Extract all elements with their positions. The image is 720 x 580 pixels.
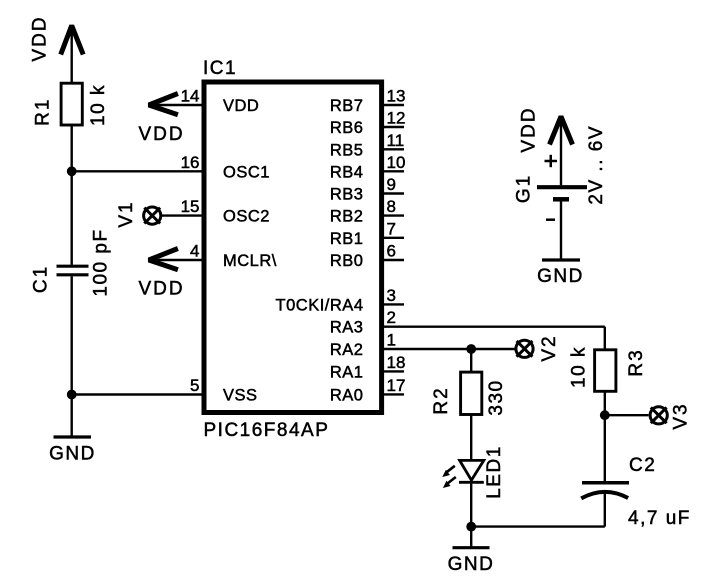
svg-text:2: 2 [387,308,396,327]
wire pin 8 [382,214,404,216]
svg-text:VDD: VDD [223,97,259,115]
battery G1 supply arrow VDD [550,117,573,145]
wire [70,276,72,394]
svg-text:MCLR\: MCLR\ [223,252,277,270]
svg-text:5: 5 [190,376,199,395]
wire pin 12 [382,126,404,128]
svg-text:RA3: RA3 [330,319,364,337]
wire to OSC1 [72,170,204,172]
wire [560,201,562,260]
svg-text:6: 6 [387,242,396,261]
svg-text:GND: GND [448,554,495,575]
svg-text:RA0: RA0 [330,386,364,404]
svg-text:GND: GND [49,444,96,465]
svg-text:17: 17 [387,376,406,395]
svg-text:OSC1: OSC1 [223,163,270,181]
ground GND (bottom) [453,546,490,549]
svg-text:4: 4 [190,242,199,261]
svg-text:VDD: VDD [519,106,540,152]
wire [70,171,72,264]
ground GND (left) [54,435,92,438]
wire [604,327,606,350]
wire pin 15 [161,214,204,216]
wire [70,125,72,171]
svg-text:RB7: RB7 [330,97,364,115]
supply arrow VDD (top left) [61,26,83,55]
test point V1 [144,207,161,224]
svg-text:VDD: VDD [30,15,51,61]
wire pin 3 [382,303,404,305]
IC1 right pin names [276,97,364,404]
wire [604,391,606,415]
svg-text:RB0: RB0 [330,252,364,270]
wire [604,493,606,527]
svg-text:OSC2: OSC2 [223,208,270,226]
svg-text:14: 14 [181,87,200,106]
svg-text:LED1: LED1 [484,445,505,499]
svg-text:9: 9 [387,175,396,194]
svg-text:4,7 uF: 4,7 uF [628,508,691,529]
LED1 light arrows [442,466,456,488]
wire [70,30,72,83]
svg-text:R1: R1 [33,98,54,126]
svg-text:18: 18 [387,353,406,372]
junction node [67,166,77,176]
svg-text:PIC16F84AP: PIC16F84AP [204,420,330,441]
wire [471,525,605,527]
svg-text:GND: GND [537,266,584,287]
supply arrow VDD at pin 14 [149,94,178,115]
supply arrow VDD at pin 4 [149,249,178,270]
svg-text:RB6: RB6 [330,119,364,137]
test point V2 [516,340,533,357]
svg-text:RB4: RB4 [330,163,364,181]
capacitor C1 [57,265,89,268]
svg-text:T0CKI/RA4: T0CKI/RA4 [276,296,364,314]
resistor R1 [61,83,82,125]
svg-text:3: 3 [387,286,396,305]
wire [470,482,472,526]
svg-text:R3: R3 [626,348,647,376]
junction node [466,522,476,532]
wire [560,121,562,185]
svg-text:7: 7 [387,219,396,238]
wire pin 14 [149,104,204,106]
svg-text:V1: V1 [116,200,137,227]
wire pin 6 [382,259,404,261]
IC1 left pin names [223,97,277,404]
LED LED1 [460,460,484,480]
svg-text:C1: C1 [31,265,52,293]
svg-text:RB3: RB3 [330,186,364,204]
svg-text:10: 10 [387,153,406,172]
svg-text:V2: V2 [539,334,560,361]
IC1 left pin numbers [181,87,200,396]
battery G1 positive plate [537,185,587,189]
battery G1 negative plate [553,197,569,202]
wire [470,349,472,372]
wire [470,415,472,461]
minus sign [546,218,555,221]
svg-text:100 pF: 100 pF [91,228,112,296]
wire pin 13 [382,104,404,106]
wire pin 1 net [382,348,515,350]
svg-text:10 k: 10 k [569,346,590,388]
wire pin 2 net [382,326,605,328]
svg-text:VDD: VDD [138,279,184,300]
capacitor C2 (polarized) [582,481,629,485]
IC IC1 PIC16F84AP body [204,82,382,413]
wire pin 11 [382,148,404,150]
resistor R3 [595,350,616,392]
svg-text:V3: V3 [671,402,692,429]
junction node [466,344,476,354]
svg-text:2V .. 6V: 2V .. 6V [586,125,607,205]
svg-text:11: 11 [387,131,405,150]
svg-text:G1: G1 [514,174,535,203]
svg-text:VDD: VDD [138,124,184,145]
svg-text:15: 15 [181,197,200,216]
svg-text:IC1: IC1 [203,58,237,79]
svg-text:R2: R2 [431,386,452,414]
junction node [600,410,610,420]
wire pin 18 [382,370,404,372]
wire pin 4 [149,259,204,261]
svg-text:8: 8 [387,197,396,216]
ground GND (G1) [542,258,580,261]
wire to VSS [72,393,204,395]
svg-text:VSS: VSS [223,386,258,404]
wire [70,395,72,438]
plus sign [545,160,558,163]
svg-text:RB1: RB1 [330,230,364,248]
svg-text:330: 330 [486,379,507,415]
svg-text:16: 16 [181,153,200,172]
wire pin 10 [382,170,404,172]
wire pin 17 [382,393,404,395]
wire pin 7 [382,237,404,239]
test point V3 [650,407,667,424]
junction node [67,390,77,400]
svg-text:13: 13 [387,87,406,106]
wire [470,527,472,548]
svg-text:RB5: RB5 [330,141,364,159]
svg-text:RA1: RA1 [330,363,364,381]
wire [605,414,649,416]
svg-text:10 k: 10 k [88,84,109,126]
wire [604,415,606,481]
wire pin 9 [382,192,404,194]
svg-text:12: 12 [387,109,406,128]
svg-text:RB2: RB2 [330,208,364,226]
IC1 right pin numbers [387,87,406,395]
svg-text:C2: C2 [629,455,656,476]
resistor R2 [461,372,482,414]
svg-text:RA2: RA2 [330,341,364,359]
svg-text:1: 1 [387,331,396,350]
